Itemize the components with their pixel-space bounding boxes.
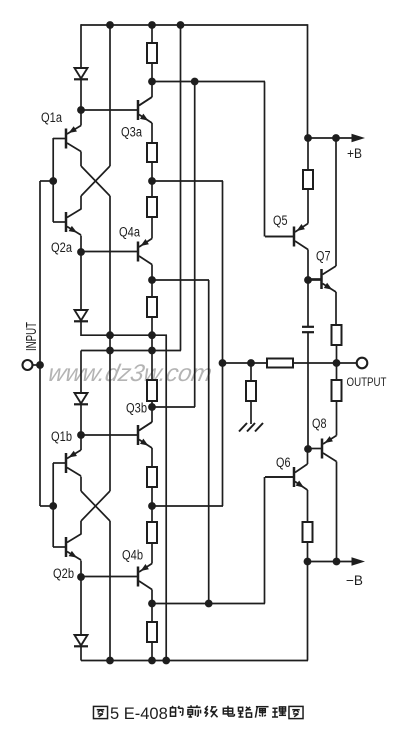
svg-text:−B: −B [346, 573, 363, 588]
svg-text:OUTPUT: OUTPUT [347, 377, 387, 389]
svg-text:Q3a: Q3a [121, 125, 142, 140]
svg-text:Q6: Q6 [276, 455, 291, 470]
svg-text:Q1a: Q1a [41, 110, 62, 125]
svg-text:Q4a: Q4a [119, 225, 140, 240]
svg-text:Q8: Q8 [312, 416, 327, 431]
svg-text:www.dz3w.com: www.dz3w.com [46, 360, 215, 387]
svg-text:5 E-408: 5 E-408 [110, 705, 168, 723]
svg-text:+B: +B [347, 146, 362, 161]
svg-text:Q5: Q5 [273, 213, 288, 228]
svg-text:Q7: Q7 [316, 249, 331, 264]
svg-text:Q4b: Q4b [122, 548, 143, 563]
svg-text:Q2a: Q2a [51, 240, 72, 255]
svg-text:Q1b: Q1b [51, 429, 72, 444]
svg-text:INPUT: INPUT [24, 322, 40, 351]
svg-text:Q2b: Q2b [53, 566, 74, 581]
svg-text:Q3b: Q3b [126, 401, 147, 416]
